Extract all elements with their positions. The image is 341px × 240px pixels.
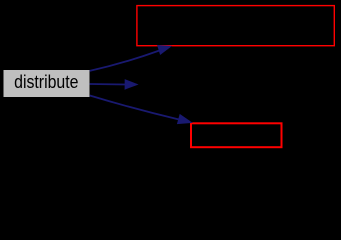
svg-text:distribute: distribute [14, 71, 78, 92]
